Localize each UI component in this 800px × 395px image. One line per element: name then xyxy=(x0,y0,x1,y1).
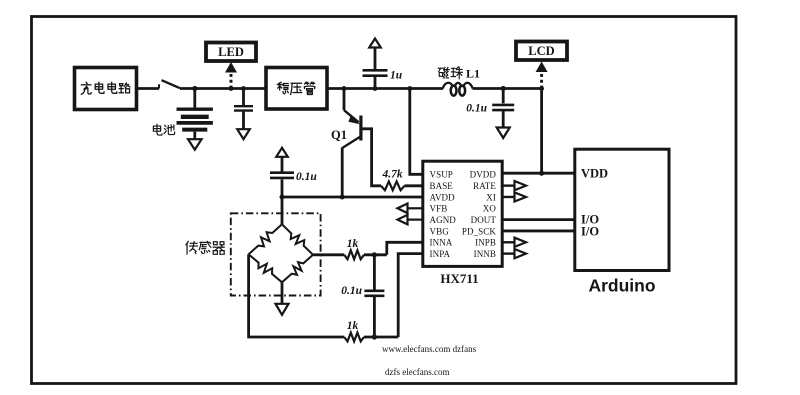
wire: bridge left down to bottom net xyxy=(249,254,345,337)
svg-text:VSUP: VSUP xyxy=(430,170,453,180)
bridge resistor (bottom-right arm) xyxy=(282,255,313,282)
node: filter cap tap xyxy=(241,86,246,91)
svg-text:INNB: INNB xyxy=(474,249,496,259)
svg-text:1k: 1k xyxy=(347,238,359,250)
node: C4 tap xyxy=(501,86,506,91)
svg-text:VBG: VBG xyxy=(430,226,450,236)
wire: AVDD net xyxy=(282,196,423,199)
resistor R1 4.7k xyxy=(381,181,405,190)
svg-text:0.1u: 0.1u xyxy=(296,171,317,183)
box: regulator 稳压管 xyxy=(266,68,327,110)
capacitor C3 0.1u xyxy=(281,179,284,197)
node: VSUP tap xyxy=(407,86,412,91)
svg-text:1k: 1k xyxy=(347,320,359,332)
wire: DVDD to VDD xyxy=(502,172,575,175)
svg-text:I/O: I/O xyxy=(581,224,599,238)
node: 1u cap tap xyxy=(373,86,378,91)
svg-text:INNA: INNA xyxy=(430,238,453,248)
power arrow (C3) xyxy=(276,148,288,157)
capacitor C1 xyxy=(242,89,245,106)
capacitor C5 0.1u xyxy=(373,255,376,290)
wire: R3 to INPA xyxy=(364,336,398,339)
IC U1 HX711 xyxy=(423,161,502,266)
svg-text:Arduino: Arduino xyxy=(588,276,655,296)
svg-text:XI: XI xyxy=(486,192,496,202)
port arrow RATE xyxy=(502,184,514,186)
wire: bridge bottom to ground xyxy=(281,282,284,303)
wire: rail to VSUP pin xyxy=(410,89,423,175)
svg-text:INPA: INPA xyxy=(430,249,451,259)
power arrow (C2) xyxy=(369,39,381,48)
dashed indicator wire to LED xyxy=(230,72,233,89)
svg-text:RATE: RATE xyxy=(473,181,496,191)
ground (bridge) xyxy=(276,304,289,315)
resistor R2 1k xyxy=(344,250,364,259)
node: Q1 emitter tap xyxy=(342,86,347,91)
port arrow VFB xyxy=(408,207,423,209)
battery 电池 xyxy=(193,89,196,108)
svg-text:0.1u: 0.1u xyxy=(466,103,487,115)
bridge resistor (top-right arm) xyxy=(282,224,313,255)
capacitor C2 1u xyxy=(374,77,377,89)
bridge resistor (bottom-left arm) xyxy=(249,254,282,282)
svg-text:AGND: AGND xyxy=(430,215,457,225)
node: LCD tap / rail corner xyxy=(539,86,544,91)
capacitor C4 0.1u xyxy=(502,89,505,104)
wire: DOUT to I/O xyxy=(502,218,575,221)
sensor box 传感器 (dash-dot) xyxy=(231,213,321,295)
ground (battery) xyxy=(188,139,202,150)
svg-text:INPB: INPB xyxy=(475,238,496,248)
svg-text:Q1: Q1 xyxy=(331,128,347,142)
bridge resistor (top-left arm) xyxy=(249,224,282,254)
label 传感器 xyxy=(186,241,197,254)
svg-text:DVDD: DVDD xyxy=(470,170,497,180)
label 电池 xyxy=(153,124,162,135)
switch S1 xyxy=(158,84,160,88)
box: LCD xyxy=(516,42,567,61)
dashed indicator wire to LCD xyxy=(540,73,543,89)
port arrow AGND xyxy=(408,219,423,221)
wire: R2 to INNA xyxy=(364,253,387,256)
wire: switch to regulator xyxy=(180,87,266,90)
transistor Q1 xyxy=(343,89,346,111)
svg-text:AVDD: AVDD xyxy=(430,192,456,202)
node: battery junction xyxy=(192,86,197,91)
wire: rail down to DVDD line xyxy=(540,89,543,174)
node: LED tap xyxy=(229,86,234,91)
port arrow INNB xyxy=(502,252,514,254)
ground (C1) xyxy=(237,129,250,139)
svg-text:DOUT: DOUT xyxy=(471,215,497,225)
svg-text:VDD: VDD xyxy=(581,167,608,181)
wire: AVDD to bridge top xyxy=(281,197,284,224)
label 磁珠 L1 xyxy=(438,67,449,77)
port arrow XI xyxy=(502,196,514,198)
svg-text:BASE: BASE xyxy=(430,181,454,191)
svg-text:PD_SCK: PD_SCK xyxy=(462,226,497,236)
svg-text:LED: LED xyxy=(218,45,244,59)
svg-text:1u: 1u xyxy=(390,70,403,82)
inductor L1 ferrite bead 磁珠 xyxy=(451,86,457,96)
svg-text:VFB: VFB xyxy=(430,204,448,214)
svg-text:4.7k: 4.7k xyxy=(381,169,402,181)
wire: bridge right to R2 xyxy=(313,253,344,256)
module: Arduino xyxy=(575,149,669,270)
svg-text:L1: L1 xyxy=(466,67,480,81)
svg-text:HX711: HX711 xyxy=(440,271,478,286)
resistor R3 1k xyxy=(344,333,364,342)
svg-text:dzfs elecfans.com: dzfs elecfans.com xyxy=(385,367,449,377)
svg-text:XO: XO xyxy=(483,204,497,214)
ground (C4) xyxy=(497,128,510,139)
svg-text:LCD: LCD xyxy=(528,44,554,58)
svg-text:0.1u: 0.1u xyxy=(341,285,362,297)
port arrow INPB xyxy=(502,241,514,243)
svg-text:www.elecfans.com dzfans: www.elecfans.com dzfans xyxy=(382,344,477,354)
box: charging circuit 充电电路 xyxy=(75,68,137,110)
box: LED xyxy=(206,43,256,62)
wire: main supply rail xyxy=(327,87,443,90)
wire: charger to switch xyxy=(137,87,160,90)
wire: PD_SCK to I/O xyxy=(502,230,575,233)
